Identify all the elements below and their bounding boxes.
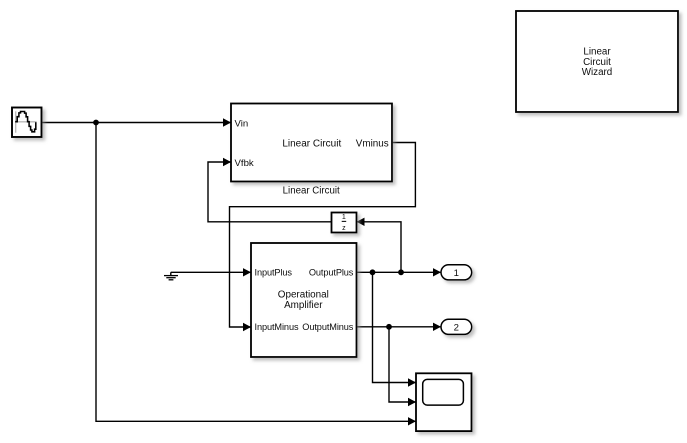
ground [164,272,178,280]
svg-text:OutputPlus: OutputPlus [309,268,354,278]
svg-text:Vminus: Vminus [356,138,389,149]
out port 1 [441,265,472,280]
wire: sine source output to Vin [42,118,231,126]
wire: Vminus output feedback to InputMinus [230,143,416,332]
svg-text:Linear Circuit: Linear Circuit [283,186,340,197]
wire: OutputPlus to out port 1 [357,268,442,276]
svg-text:InputMinus: InputMinus [255,322,299,332]
svg-text:InputPlus: InputPlus [255,268,293,278]
op-amp block Operational Amplifier [251,243,357,357]
svg-text:1: 1 [454,268,459,279]
node junction OutputMinus [386,324,392,330]
svg-text:Operational: Operational [278,289,329,300]
wire: 1/z output to Vfbk [208,158,332,222]
svg-text:Wizard: Wizard [582,67,612,78]
out port 2 [441,319,472,334]
svg-text:Amplifier: Amplifier [284,300,323,311]
svg-text:Vin: Vin [235,118,249,129]
wire: source junction down and right to scope input 3 [96,123,416,426]
node junction on source wire [93,120,99,126]
sine wave source block [12,108,42,138]
svg-text:2: 2 [454,322,459,333]
block Linear Circuit [231,104,392,182]
wire: OutputPlus junction up to 1/z input [357,218,402,273]
unit delay 1/z [332,213,357,233]
svg-text:z: z [342,224,346,232]
scope block [416,373,472,431]
svg-text:Vfbk: Vfbk [235,158,254,169]
svg-text:Linear Circuit: Linear Circuit [282,138,341,149]
node junction OutputPlus B [398,269,404,275]
wire: OutputMinus to out port 2 [357,323,442,331]
node junction OutputPlus A [370,269,376,275]
wire: OutputPlus junction down to scope input 1 [373,272,417,386]
annotation box Linear Circuit Wizard [516,11,678,112]
svg-text:1: 1 [342,213,346,221]
wire: OutputMinus junction down to scope input 2 [389,327,416,406]
wire: ground to InputPlus [171,268,251,276]
svg-text:OutputMinus: OutputMinus [302,322,353,332]
